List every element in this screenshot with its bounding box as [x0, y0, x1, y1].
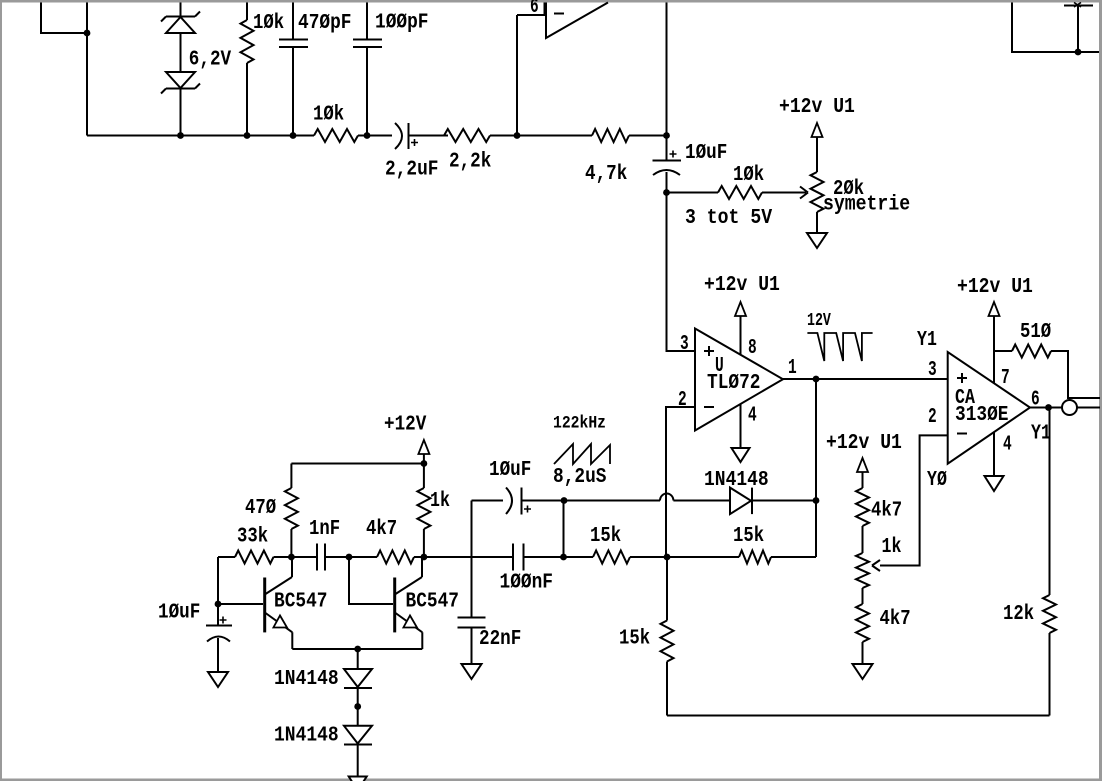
label +12V	[384, 413, 426, 437]
wire	[41, 3, 87, 34]
wire	[666, 3, 668, 161]
node junction	[354, 646, 361, 653]
label 100pF	[375, 11, 429, 35]
svg-text:4: 4	[748, 404, 757, 428]
svg-text:6: 6	[530, 0, 539, 19]
label 12k	[1003, 602, 1034, 626]
label 4k7	[871, 499, 902, 523]
label 6,2V	[189, 48, 231, 72]
svg-text:51Ø: 51Ø	[1020, 320, 1051, 344]
svg-text:33k: 33k	[237, 525, 268, 549]
wire	[862, 526, 864, 553]
svg-text:1ØuF: 1ØuF	[685, 141, 727, 165]
node junction	[288, 554, 295, 561]
svg-text:BC547: BC547	[406, 590, 460, 614]
svg-text:12k: 12k	[1003, 602, 1034, 626]
label 4k7	[366, 517, 397, 541]
label 4	[1003, 433, 1012, 457]
label 122kHz	[553, 413, 606, 433]
label 10uF	[685, 141, 727, 165]
label 2	[928, 405, 937, 429]
resistor 4k7 mv	[377, 551, 414, 564]
svg-text:3: 3	[680, 332, 689, 356]
svg-text:2,2k: 2,2k	[449, 150, 491, 174]
capacitor 22nF	[458, 618, 486, 665]
svg-text:22nF: 22nF	[479, 627, 521, 651]
wire emitter rail	[292, 648, 422, 650]
label U	[715, 354, 724, 378]
pin 4 ground wire	[993, 432, 995, 476]
label 1N4148	[704, 468, 769, 492]
label 8	[748, 336, 757, 360]
label 10uF	[489, 458, 531, 482]
node junction	[663, 189, 670, 196]
supply arrow	[857, 458, 868, 472]
wire	[218, 556, 235, 558]
wire	[994, 350, 1012, 352]
svg-text:2: 2	[678, 388, 687, 412]
label 1N4148	[274, 667, 339, 691]
node junction	[421, 554, 428, 561]
pin 6 stub	[517, 3, 545, 16]
svg-text:+12V: +12V	[384, 413, 426, 437]
wire	[667, 556, 739, 558]
capacitor 10uF polarized left	[206, 604, 232, 672]
svg-text:4: 4	[1003, 433, 1012, 457]
label 10k	[313, 103, 344, 127]
label BC547	[274, 590, 328, 614]
diode D4 1N4148	[344, 707, 372, 777]
pin 8 supply wire	[735, 302, 746, 355]
wire	[1077, 6, 1079, 52]
label 2,2k	[449, 150, 491, 174]
svg-text:1nF: 1nF	[309, 517, 340, 541]
label +12v U1	[957, 275, 1033, 299]
wire	[862, 472, 864, 488]
capacitor 10uF output polarized	[506, 488, 564, 515]
svg-text:YØ: YØ	[927, 468, 947, 492]
label Y1	[917, 328, 937, 352]
capacitor 10uF polarized vertical	[653, 151, 682, 193]
label 7	[1001, 366, 1010, 390]
svg-text:TLØ72: TLØ72	[707, 371, 761, 395]
node junction	[244, 132, 251, 139]
label 1nF	[309, 517, 340, 541]
resistor 15k left	[593, 551, 630, 564]
node junction	[514, 132, 521, 139]
node junction	[354, 703, 361, 710]
node junction	[1045, 404, 1052, 411]
svg-text:15k: 15k	[590, 524, 621, 548]
label - input	[957, 433, 967, 435]
label 12V	[807, 311, 831, 331]
label + input	[704, 346, 714, 356]
svg-text:4,7k: 4,7k	[585, 162, 627, 186]
wire	[771, 556, 816, 558]
output terminal circle	[1062, 400, 1077, 415]
ground	[985, 476, 1004, 491]
ground	[208, 672, 228, 687]
label 3 tot 5V	[685, 206, 772, 230]
capacitor 100pF	[353, 3, 382, 136]
svg-text:1N4148: 1N4148	[274, 724, 339, 748]
resistor 33k	[235, 551, 274, 564]
svg-text:BC547: BC547	[274, 590, 328, 614]
node junction	[84, 30, 91, 37]
svg-text:+12v U1: +12v U1	[957, 275, 1033, 299]
svg-text:1ØuF: 1ØuF	[489, 458, 531, 482]
wire horizontal bus	[87, 135, 666, 137]
wire	[563, 501, 565, 558]
op-amp partial at top edge	[546, 3, 608, 39]
label 33k	[237, 525, 268, 549]
label 3130E	[955, 403, 1009, 427]
svg-text:1Øk: 1Øk	[253, 11, 284, 35]
label 3	[928, 358, 937, 382]
resistor 4k7 lower	[856, 604, 869, 642]
svg-text:1: 1	[788, 356, 797, 380]
label 10k	[253, 11, 284, 35]
capacitor 100nF	[513, 544, 564, 571]
svg-text:+12v U1: +12v U1	[826, 431, 902, 455]
wire	[1012, 3, 1099, 53]
label + input	[957, 373, 967, 383]
wire	[424, 556, 512, 558]
label 4	[748, 404, 757, 428]
wire	[516, 15, 518, 136]
label +12v U1	[704, 273, 780, 297]
wire	[862, 588, 864, 604]
resistor 2,2k	[444, 129, 490, 142]
svg-text:2: 2	[928, 405, 937, 429]
svg-text:4k7: 4k7	[871, 499, 902, 523]
svg-text:8: 8	[748, 336, 757, 360]
node junction	[346, 554, 353, 561]
wire top rail	[291, 463, 424, 465]
resistor 10k vertical	[241, 3, 254, 136]
svg-text:6,2V: 6,2V	[189, 48, 231, 72]
svg-text:8,2uS: 8,2uS	[553, 465, 607, 489]
svg-text:313ØE: 313ØE	[955, 403, 1009, 427]
waveform sawtooth falling	[807, 333, 872, 361]
ground at bottom edge	[349, 777, 367, 781]
node junction	[290, 132, 297, 139]
label 22nF	[479, 627, 521, 651]
node junction	[813, 376, 820, 383]
svg-text:15k: 15k	[619, 627, 650, 651]
node junction	[177, 132, 184, 139]
svg-text:1Øk: 1Øk	[733, 163, 764, 187]
svg-text:Y1: Y1	[1031, 422, 1051, 446]
label 15k	[619, 627, 650, 651]
node junction	[663, 132, 670, 139]
svg-text:4k7: 4k7	[880, 607, 911, 631]
node junction	[813, 497, 820, 504]
label 3	[680, 332, 689, 356]
wire	[667, 192, 719, 194]
label 2,2uF	[385, 158, 439, 182]
potentiometer 1k	[856, 553, 869, 588]
label Y1	[1031, 422, 1051, 446]
svg-text:3: 3	[928, 358, 937, 382]
wire	[349, 557, 393, 604]
ground	[853, 664, 873, 679]
label 2	[678, 388, 687, 412]
svg-text:1k: 1k	[882, 535, 902, 559]
wire	[564, 500, 660, 502]
wire	[673, 500, 730, 502]
wire with arrowhead into pot	[762, 187, 808, 199]
capacitor 470pF	[279, 3, 308, 136]
svg-text:1Øk: 1Øk	[313, 103, 344, 127]
wire	[290, 464, 292, 489]
wire	[815, 379, 817, 557]
wire bottom rail	[667, 715, 1050, 717]
resistor 510	[1012, 345, 1051, 358]
label 4k7	[880, 607, 911, 631]
svg-text:symetrie: symetrie	[823, 193, 910, 217]
label 100nF	[500, 571, 554, 595]
label +12v U1	[779, 95, 855, 119]
diode 1N4148 horizontal	[730, 488, 816, 514]
resistor 10k horizontal	[314, 129, 358, 142]
label 1k	[430, 489, 450, 513]
label 6	[530, 0, 539, 19]
label minus input	[554, 13, 564, 15]
svg-text:Y1: Y1	[917, 328, 937, 352]
node junction	[364, 132, 371, 139]
waveform sawtooth rising	[554, 444, 610, 464]
wire	[217, 557, 219, 604]
label 15k	[733, 524, 764, 548]
wire	[1049, 408, 1051, 596]
node junction	[560, 554, 567, 561]
label 4,7k	[585, 162, 627, 186]
label - input	[704, 406, 714, 408]
wiper arrowhead	[872, 560, 880, 571]
node junction	[664, 554, 671, 561]
wire	[86, 3, 88, 136]
label 510	[1020, 320, 1051, 344]
svg-text:7: 7	[1001, 366, 1010, 390]
wire	[667, 193, 696, 352]
svg-text:1ØuF: 1ØuF	[158, 601, 200, 625]
resistor 15k vertical	[661, 557, 674, 716]
node junction	[561, 497, 568, 504]
ground	[732, 448, 750, 462]
label 10k	[733, 163, 764, 187]
wire	[290, 529, 292, 557]
diode D3 1N4148	[344, 649, 372, 707]
resistor 12k	[1043, 595, 1056, 716]
capacitor 1nF	[291, 544, 349, 571]
supply arrow	[418, 440, 429, 454]
node junction	[1075, 49, 1082, 56]
wire hop over vertical	[660, 494, 673, 501]
op-amp U2 CA3130E triangle	[948, 352, 1030, 464]
svg-text:47Ø: 47Ø	[245, 496, 276, 520]
label 10uF	[158, 601, 200, 625]
svg-text:3 tot 5V: 3 tot 5V	[685, 206, 772, 230]
svg-text:15k: 15k	[733, 524, 764, 548]
label TL072	[707, 371, 761, 395]
resistor 470	[285, 488, 298, 529]
label 470pF	[298, 11, 352, 35]
wire	[423, 454, 425, 464]
wire	[630, 556, 667, 558]
op-amp U1 TL072 triangle	[695, 329, 783, 431]
transistor Q1 BC547	[265, 557, 293, 649]
label CA	[955, 386, 975, 410]
label 1N4148	[274, 724, 339, 748]
node junction	[421, 460, 428, 467]
capacitor plate at top edge	[1064, 3, 1093, 8]
label symetrie	[823, 193, 910, 217]
label 15k	[590, 524, 621, 548]
svg-text:2,2uF: 2,2uF	[385, 158, 439, 182]
potentiometer 20k symetrie	[811, 123, 824, 233]
wire	[1051, 351, 1100, 398]
zener diode D2 6,2V bottom	[161, 72, 200, 136]
wire pin 2	[880, 435, 948, 565]
wire Q1 base	[218, 603, 263, 605]
label 8,2uS	[553, 465, 607, 489]
wire	[349, 556, 424, 558]
wire	[1077, 407, 1100, 409]
wire	[472, 500, 504, 502]
wire	[471, 501, 473, 618]
wire	[274, 556, 292, 558]
svg-text:4k7: 4k7	[366, 517, 397, 541]
svg-text:+12v U1: +12v U1	[779, 95, 855, 119]
resistor 1k	[417, 464, 430, 558]
capacitor 2,2uF polarized	[395, 123, 418, 149]
label 6	[1031, 388, 1040, 412]
zener diode D1 6,2V top	[161, 3, 200, 73]
label +12v U1	[826, 431, 902, 455]
svg-text:12V: 12V	[807, 311, 831, 331]
resistor 15k right	[739, 551, 771, 564]
resistor 10k to pot	[718, 186, 762, 199]
resistor 4,7k	[592, 129, 629, 142]
svg-text:122kHz: 122kHz	[553, 413, 606, 433]
label 1k	[882, 535, 902, 559]
svg-text:1N4148: 1N4148	[274, 667, 339, 691]
node junction	[215, 601, 222, 608]
wire output pin 1	[783, 378, 948, 380]
wire pin 2	[666, 407, 695, 557]
ground	[462, 664, 482, 679]
wire output pin 6	[1030, 407, 1062, 409]
label 1	[788, 356, 797, 380]
label 470	[245, 496, 276, 520]
svg-text:1ØØnF: 1ØØnF	[500, 571, 554, 595]
svg-text:1ØØpF: 1ØØpF	[375, 11, 429, 35]
svg-text:+12v U1: +12v U1	[704, 273, 780, 297]
transistor Q2 BC547	[395, 557, 423, 649]
label BC547	[406, 590, 460, 614]
pin 4 ground wire	[740, 404, 742, 448]
wire	[564, 556, 594, 558]
resistor 4k7 upper	[856, 488, 869, 526]
svg-text:1k: 1k	[430, 489, 450, 513]
svg-text:47ØpF: 47ØpF	[298, 11, 352, 35]
label 20k	[833, 177, 864, 201]
svg-text:1N4148: 1N4148	[704, 468, 769, 492]
pin 7 supply wire	[989, 302, 1000, 383]
wire	[862, 642, 864, 664]
ground	[807, 233, 827, 248]
label Y0	[927, 468, 947, 492]
